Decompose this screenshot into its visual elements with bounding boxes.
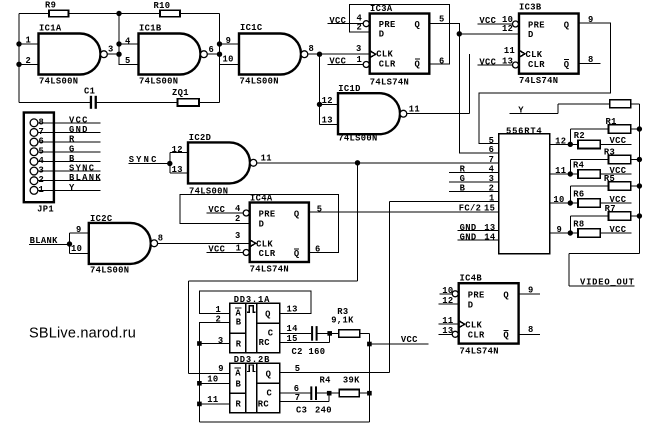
- wire: DD3.1A pin1 feedback from Q pin13: [199, 291, 311, 315]
- node: IC1D pin12 junction: [317, 102, 322, 107]
- IC4A D pin2 and feedback loop from Q-bar: [180, 195, 338, 253]
- svg-text:C1: C1: [84, 87, 95, 97]
- svg-text:RC: RC: [258, 399, 270, 409]
- node: IC3A Q / IC3B D junction: [457, 31, 462, 36]
- wire: DD3.2B pin6 C to capacitor C3: [280, 384, 311, 394]
- svg-text:10: 10: [71, 244, 82, 254]
- svg-text:C3: C3: [296, 405, 307, 415]
- wire: oscillator right rail x=219.5: [219, 14, 221, 103]
- svg-text:10: 10: [442, 286, 453, 296]
- resistor R10: [154, 1, 181, 17]
- DD3.2B internal labels: [235, 365, 273, 409]
- wire: IC1A output pin 3 to node: [107, 53, 119, 55]
- svg-text:2: 2: [357, 22, 363, 32]
- IC4B D pin12 stub: [439, 296, 459, 306]
- svg-text:VCC: VCC: [208, 205, 225, 215]
- svg-text:CLK: CLK: [376, 50, 393, 60]
- svg-text:74LS74N: 74LS74N: [370, 78, 409, 88]
- IC4B CLK triangle: [459, 321, 465, 328]
- node: IC2D output junction to DD3.2B: [355, 160, 360, 165]
- svg-text:VCC: VCC: [69, 115, 89, 125]
- svg-text:8: 8: [158, 233, 164, 243]
- svg-text:R: R: [69, 135, 76, 145]
- IC4A CLK triangle: [250, 240, 256, 247]
- svg-text:SYNC: SYNC: [129, 155, 159, 165]
- svg-text:VIDEO_OUT: VIDEO_OUT: [580, 277, 635, 287]
- svg-text:R7: R7: [605, 204, 616, 214]
- svg-text:B: B: [460, 184, 466, 194]
- svg-text:CLR: CLR: [379, 59, 396, 69]
- wire: 556 pin2 B stub: [449, 184, 499, 194]
- wire: bottom rail to VCC vertical: [199, 393, 369, 422]
- svg-text:FC/2: FC/2: [459, 204, 482, 214]
- svg-text:PRE: PRE: [468, 291, 485, 301]
- IC 556RT4 video DAC: [499, 126, 550, 253]
- flip-flop IC4A 74LS74N: [250, 193, 309, 274]
- svg-text:PRE: PRE: [259, 210, 276, 220]
- svg-text:74LS74N: 74LS74N: [250, 264, 289, 274]
- svg-text:SYNC: SYNC: [69, 164, 95, 174]
- svg-text:R1: R1: [606, 117, 617, 127]
- svg-text:R: R: [236, 399, 242, 409]
- resistor top unnamed on Y line: [610, 100, 631, 108]
- IC3B PRE pin10 VCC: [478, 15, 519, 27]
- wire: 556 pin10 output: [550, 195, 573, 206]
- svg-text:R10: R10: [154, 1, 171, 11]
- svg-text:11: 11: [442, 316, 453, 326]
- svg-text:IC1B: IC1B: [139, 24, 162, 34]
- svg-text:R6: R6: [573, 190, 584, 200]
- svg-text:IC4B: IC4B: [460, 273, 483, 283]
- wire: oscillator bottom rail y=102.3: [19, 101, 220, 103]
- svg-text:IC1A: IC1A: [39, 24, 62, 34]
- svg-text:VCC: VCC: [479, 16, 496, 26]
- IC3A CLK triangle: [370, 51, 376, 58]
- node Y input stub: [509, 104, 609, 116]
- svg-text:14: 14: [484, 232, 496, 242]
- svg-text:9: 9: [76, 225, 82, 235]
- crystal ZQ1: [172, 88, 199, 106]
- svg-text:15: 15: [287, 334, 298, 344]
- svg-text:IC1D: IC1D: [338, 84, 361, 94]
- svg-text:13: 13: [172, 165, 183, 175]
- svg-text:R4: R4: [573, 161, 585, 171]
- svg-text:8: 8: [309, 44, 315, 54]
- svg-text:12: 12: [322, 96, 333, 106]
- svg-text:VCC: VCC: [329, 16, 346, 26]
- svg-text:D: D: [528, 30, 534, 40]
- wire: 556 pin4 R stub: [449, 165, 499, 175]
- resistor R9: [45, 1, 69, 17]
- node: IC1C output junction: [317, 52, 322, 57]
- wire: IC4A Q pin5 to 556 pin15 FC/2: [309, 205, 499, 215]
- svg-text:R2: R2: [574, 131, 585, 141]
- wire: IC4B Q pin9 stub: [519, 285, 541, 295]
- svg-text:5: 5: [295, 364, 301, 374]
- wire: DD3.2B pin11 R: [197, 395, 230, 406]
- svg-text:9: 9: [557, 225, 563, 235]
- wire: VIDEO_OUT: [569, 254, 639, 288]
- svg-text:IC2C: IC2C: [90, 214, 113, 224]
- svg-text:VCC: VCC: [401, 335, 418, 345]
- svg-text:Q: Q: [503, 331, 509, 341]
- svg-text:7: 7: [295, 393, 301, 403]
- svg-text:9: 9: [226, 36, 232, 46]
- node SYNC input to IC2D: [129, 153, 189, 173]
- svg-text:9: 9: [588, 15, 594, 25]
- wire: IC1A input pins 1,2: [19, 44, 39, 64]
- svg-text:5: 5: [439, 14, 445, 24]
- svg-text:10: 10: [207, 374, 218, 384]
- wire: DD3.1A pin2 B to VCC rail vertical: [199, 315, 229, 422]
- svg-text:G: G: [69, 144, 76, 154]
- resistor R3: [331, 307, 359, 337]
- svg-text:VCC: VCC: [610, 136, 627, 146]
- wire: JP1 pin3 SYNC stub: [37, 164, 100, 174]
- svg-text:74LS00N: 74LS00N: [338, 133, 377, 143]
- svg-text:VCC: VCC: [208, 245, 225, 255]
- 556RT4 pin15 FC/2 label: [459, 204, 495, 214]
- svg-text:Q: Q: [415, 59, 421, 69]
- svg-text:A: A: [235, 369, 241, 379]
- resistor R8: [570, 220, 631, 238]
- svg-text:CLR: CLR: [259, 249, 276, 259]
- svg-text:Q: Q: [564, 21, 570, 31]
- svg-text:556RT4: 556RT4: [506, 126, 542, 136]
- wire: DD3.1A pin14 C to capacitor C2: [280, 324, 312, 334]
- svg-text:3: 3: [235, 231, 241, 241]
- svg-text:1: 1: [489, 194, 495, 204]
- svg-text:1: 1: [357, 55, 363, 65]
- svg-text:2: 2: [235, 214, 241, 224]
- svg-text:11: 11: [504, 46, 515, 56]
- svg-text:GND: GND: [460, 232, 477, 242]
- IC3A PRE pin4 VCC: [328, 14, 370, 27]
- svg-text:9: 9: [528, 285, 534, 295]
- svg-text:1: 1: [236, 243, 242, 253]
- wire: IC1C pins 9,10 from right rail: [220, 44, 240, 64]
- svg-text:R3: R3: [604, 148, 615, 158]
- svg-text:B: B: [69, 154, 76, 164]
- wire: R4 right to VCC vertical node: [359, 391, 372, 396]
- svg-text:160: 160: [309, 347, 326, 357]
- svg-text:7: 7: [489, 155, 495, 165]
- wire: IC3B D pin12: [459, 33, 519, 35]
- wire: IC4B Q-bar pin8 stub: [519, 325, 541, 335]
- IC4A internal labels: [256, 210, 300, 260]
- flip-flop IC3A 74LS74N: [370, 4, 430, 88]
- svg-text:12: 12: [555, 136, 566, 146]
- svg-text:Q: Q: [294, 210, 300, 220]
- wire: 556 pin3 G stub: [449, 174, 499, 184]
- JP1 pin numbers 8..1: [39, 117, 45, 195]
- wire: right rail x=639.4: [638, 104, 640, 254]
- resistor R6: [570, 190, 631, 208]
- svg-text:Q: Q: [265, 310, 271, 320]
- nand gate IC1B 74LS00N: [125, 24, 214, 87]
- svg-text:1: 1: [216, 305, 222, 315]
- svg-text:74LS74N: 74LS74N: [519, 76, 558, 86]
- svg-text:IC2D: IC2D: [189, 133, 212, 143]
- IC4B CLR pin13 stub: [439, 326, 459, 337]
- wire: oscillator top rail y=13.5: [19, 13, 220, 15]
- svg-text:Q: Q: [266, 370, 272, 380]
- svg-text:5: 5: [317, 205, 323, 215]
- DD3.1A internal labels: [235, 306, 274, 350]
- wire: IC1D output pin 11 to IC3B CLK vertical: [407, 54, 470, 114]
- svg-text:74LS00N: 74LS00N: [240, 76, 279, 86]
- svg-text:R: R: [236, 339, 242, 349]
- svg-text:B: B: [236, 379, 242, 389]
- svg-text:4: 4: [125, 36, 131, 46]
- svg-text:CLK: CLK: [526, 50, 543, 60]
- svg-text:14: 14: [287, 324, 299, 334]
- svg-text:10: 10: [223, 55, 234, 65]
- svg-text:B: B: [236, 317, 242, 327]
- resistor R4: [570, 161, 631, 179]
- svg-text:R9: R9: [45, 1, 56, 11]
- node BLANK input to IC2C: [29, 233, 89, 253]
- IC3B CLR pin13 VCC: [478, 56, 519, 68]
- svg-text:Q: Q: [415, 20, 421, 30]
- svg-text:JP1: JP1: [37, 204, 54, 214]
- svg-text:74LS00N: 74LS00N: [39, 76, 78, 86]
- wire: DD3.1A pin3 R: [197, 336, 230, 346]
- monostable DD3.2B box: [230, 355, 280, 413]
- svg-text:13: 13: [287, 305, 298, 315]
- svg-text:Q: Q: [294, 249, 300, 259]
- JP1 pin circles: [30, 119, 38, 194]
- svg-text:12: 12: [442, 296, 453, 306]
- IC4A PRE pin4 VCC: [207, 204, 250, 216]
- nand gate IC1D 74LS00N: [322, 84, 420, 144]
- svg-text:10: 10: [553, 195, 564, 205]
- svg-text:D: D: [468, 300, 474, 310]
- resistor R4: [320, 375, 361, 397]
- wire: vertical from node 8 down to IC1D inputs: [320, 54, 339, 124]
- IC4A CLR pin1 VCC: [207, 243, 250, 255]
- svg-text:DD3.1A: DD3.1A: [234, 295, 270, 305]
- svg-text:R: R: [460, 165, 466, 175]
- nand gate IC1A 74LS00N: [26, 24, 114, 87]
- svg-text:R8: R8: [573, 220, 584, 230]
- resistor R3: [570, 148, 642, 175]
- svg-text:74LS74N: 74LS74N: [460, 346, 499, 356]
- svg-text:2: 2: [26, 56, 32, 66]
- wire: IC2C output pin8 to IC4A CLK: [158, 242, 250, 244]
- svg-text:13: 13: [502, 56, 513, 66]
- svg-text:SBLive.narod.ru: SBLive.narod.ru: [29, 325, 136, 341]
- resistor R5: [570, 174, 642, 203]
- svg-text:RC: RC: [259, 338, 271, 348]
- svg-text:CLR: CLR: [468, 331, 485, 341]
- IC3A internal labels: [376, 20, 420, 69]
- svg-text:11: 11: [207, 395, 218, 405]
- svg-text:DD3.2B: DD3.2B: [234, 355, 270, 365]
- svg-text:CLK: CLK: [256, 239, 273, 249]
- wire: 556 pin13 GND stub: [458, 223, 499, 233]
- svg-text:74LS00N: 74LS00N: [90, 265, 129, 275]
- monostable DD3.1A box: [230, 295, 280, 353]
- svg-text:VCC: VCC: [610, 225, 627, 235]
- wire: 556 pin9 output: [550, 225, 573, 236]
- nand gate IC2D 74LS00N: [172, 133, 272, 197]
- svg-text:CLK: CLK: [465, 321, 482, 331]
- wire: JP1 pin5 G stub: [37, 144, 100, 154]
- svg-text:2: 2: [216, 315, 222, 325]
- wire: IC2D output pin11 to 556 pin7: [257, 162, 499, 164]
- wire: DD3.2B Q pin5 to 556 pin1: [280, 364, 390, 374]
- wire: JP1 pin7 GND stub: [37, 125, 100, 135]
- svg-text:11: 11: [261, 153, 272, 163]
- svg-text:39K: 39K: [343, 375, 360, 385]
- IC3A D pin2 and feedback loop from Q-bar: [349, 5, 449, 65]
- wire: DD3.2B pin10 B: [197, 374, 230, 385]
- svg-text:4: 4: [235, 204, 241, 214]
- svg-text:IC1C: IC1C: [240, 23, 263, 33]
- svg-text:Q: Q: [564, 60, 570, 70]
- svg-text:C: C: [268, 329, 274, 339]
- svg-text:13: 13: [322, 116, 333, 126]
- svg-text:9,1K: 9,1K: [331, 316, 354, 326]
- wire: node x=119 vertical and IC1B pins 4,5: [119, 14, 139, 65]
- wire: R3 right to VCC node: [360, 333, 372, 393]
- flip-flop IC4B 74LS74N: [459, 273, 519, 356]
- wire: IC3B Q-bar pin8 stub: [579, 55, 601, 65]
- svg-text:BLANK: BLANK: [30, 236, 59, 246]
- wire: JP1 pin6 R stub: [37, 135, 100, 145]
- svg-text:8: 8: [528, 325, 534, 335]
- IC4B CLK pin11 stub: [439, 316, 459, 326]
- svg-text:Y: Y: [518, 106, 524, 116]
- wire: JP1 pin2 BLANK stub: [37, 173, 102, 183]
- svg-text:11: 11: [409, 104, 420, 114]
- node: junction dots oscillator: [16, 11, 222, 67]
- svg-text:2: 2: [489, 184, 495, 194]
- svg-text:6: 6: [489, 145, 495, 155]
- svg-text:74LS00N: 74LS00N: [139, 76, 178, 86]
- IC3B internal labels: [526, 21, 570, 70]
- capacitor C3: [296, 386, 332, 415]
- svg-text:ZQ1: ZQ1: [172, 88, 189, 98]
- wire: IC3A Q pin5 to IC3B D and down to 556 pin6: [429, 14, 499, 153]
- svg-text:12: 12: [502, 24, 513, 34]
- svg-text:GND: GND: [69, 125, 89, 135]
- wire: IC2D net down to DD3.2B pin9: [189, 163, 358, 374]
- svg-text:D: D: [259, 219, 265, 229]
- flip-flop IC3B 74LS74N: [519, 2, 579, 86]
- nand gate IC1C 74LS00N: [223, 23, 315, 86]
- svg-text:5: 5: [125, 56, 131, 66]
- svg-text:VCC: VCC: [329, 56, 346, 66]
- svg-text:BLANK: BLANK: [69, 173, 102, 183]
- svg-text:12: 12: [172, 145, 183, 155]
- capacitor C2: [292, 326, 326, 357]
- connector JP1: [24, 113, 54, 215]
- wire: 556 pin1 from DD3.2B Q: [390, 194, 499, 373]
- svg-text:6: 6: [209, 45, 215, 55]
- svg-text:9: 9: [218, 364, 224, 374]
- wire: IC1C output pin 8 to IC3A CLK: [308, 53, 370, 55]
- svg-text:Q: Q: [503, 291, 509, 301]
- svg-text:CLR: CLR: [528, 60, 545, 70]
- svg-text:R5: R5: [604, 174, 615, 184]
- IC4B PRE pin10 stub: [439, 286, 458, 297]
- svg-text:13: 13: [442, 326, 453, 336]
- wire: JP1 pin4 B stub: [37, 154, 100, 164]
- svg-text:C2: C2: [292, 347, 303, 357]
- svg-text:11: 11: [555, 166, 566, 176]
- wire: JP1 pin1 Y stub: [37, 183, 100, 193]
- svg-text:3: 3: [108, 44, 114, 54]
- svg-text:VCC: VCC: [479, 57, 496, 67]
- svg-text:R4: R4: [320, 375, 332, 385]
- svg-text:3: 3: [489, 174, 495, 184]
- wire: DD3.1A pin15 RC up to C2/R3 node: [280, 331, 339, 344]
- svg-text:6: 6: [315, 245, 321, 255]
- svg-text:3: 3: [218, 336, 224, 346]
- wire: oscillator left rail x=19: [18, 14, 20, 103]
- svg-text:D: D: [379, 30, 385, 40]
- capacitor C1: [84, 87, 97, 109]
- wire: 556 pin12 output: [550, 136, 573, 147]
- resistor R7: [570, 204, 642, 233]
- svg-text:4: 4: [489, 165, 495, 175]
- wire: JP1 pin8 VCC stub: [37, 115, 100, 125]
- resistor R1: [570, 117, 642, 144]
- svg-text:6: 6: [439, 56, 445, 66]
- wire: 556 pin14 GND stub: [458, 232, 499, 242]
- IC3A CLR pin1 VCC: [328, 55, 370, 68]
- svg-text:IC3A: IC3A: [370, 4, 393, 14]
- wire: VCC label net: [369, 335, 428, 345]
- wire: IC1B output pin 6 to node: [207, 53, 219, 55]
- wire: DD3.2B pin7 RC up to C3/R4 node: [280, 391, 340, 403]
- svg-text:3: 3: [356, 44, 362, 54]
- svg-text:IC3B: IC3B: [519, 2, 542, 12]
- resistor R2: [570, 131, 631, 149]
- wire: 556 pin11 output: [550, 166, 573, 177]
- nand gate IC2C 74LS00N: [71, 214, 163, 276]
- IC4B internal labels: [465, 291, 509, 341]
- svg-text:PRE: PRE: [379, 20, 396, 30]
- svg-text:G: G: [460, 174, 466, 184]
- svg-text:1: 1: [26, 36, 32, 46]
- IC3B CLK triangle: [519, 50, 525, 57]
- svg-text:Y: Y: [69, 183, 76, 193]
- svg-text:240: 240: [315, 405, 332, 415]
- wire: top resistor to right rail: [631, 103, 640, 105]
- svg-text:15: 15: [484, 204, 495, 214]
- wire: IC3B Q pin9 route down and left to 556 pin5: [479, 15, 611, 144]
- svg-text:8: 8: [588, 55, 594, 65]
- svg-text:C: C: [267, 389, 273, 399]
